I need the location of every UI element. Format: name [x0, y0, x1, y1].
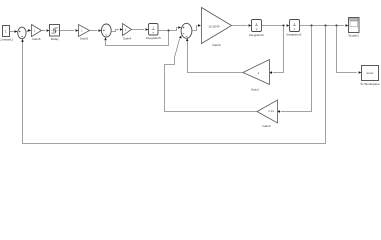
wire Gain3 to Integrator2 [232, 24, 252, 27]
wire Constant1 to Sum1 [10, 30, 18, 33]
sum Sum3 [181, 23, 192, 38]
sum Sum4 [101, 24, 111, 37]
block To Workspace [360, 66, 380, 86]
block Constant1 [0, 26, 13, 42]
svg-text:simout: simout [367, 72, 374, 75]
junction to To Workspace [336, 25, 338, 27]
junction to Gain1 input [283, 25, 285, 27]
svg-text:2.14: 2.14 [268, 109, 274, 113]
wire branch to Gain1 [269, 26, 284, 74]
wire Sum4 to Gain4 [111, 28, 123, 31]
block Integrator5 [146, 24, 161, 41]
gain Gain1 [243, 60, 270, 92]
svg-text:Integrator5: Integrator5 [146, 36, 161, 40]
svg-text:Constant1: Constant1 [0, 37, 13, 41]
svg-text:Gain1: Gain1 [251, 88, 260, 92]
junction at Integrator5 output [168, 30, 170, 32]
wire branch to To Workspace [337, 26, 362, 74]
block Scope1 [348, 18, 359, 38]
wire Integrator1 to Scope1 [300, 24, 349, 27]
junction to outer feedback [325, 25, 327, 27]
wire Integrator2 to Integrator1 [262, 24, 290, 27]
wire Relay to Gain5 [60, 29, 79, 32]
svg-text:Gain4: Gain4 [123, 36, 132, 40]
wire Gain1 to Sum3 bottom [186, 38, 243, 72]
block Integrator1 [287, 20, 302, 37]
wire Integrator5 to Sum3 [158, 26, 181, 30]
svg-text:1: 1 [5, 29, 7, 33]
wire branch to Gain2 [277, 26, 312, 113]
block Integrator2 [249, 20, 264, 37]
gain Gain5 [79, 25, 90, 41]
block Relay [50, 25, 60, 41]
gain Gain2 [257, 100, 278, 128]
wire Sum1 to Gain6 [26, 29, 31, 32]
gain Gain4 [123, 24, 132, 41]
wire Gain5 to Sum4 [90, 29, 102, 32]
svg-text:Gain5: Gain5 [80, 36, 89, 40]
wire rate feedback to Sum4 bottom [104, 31, 168, 46]
svg-text:Integrator1: Integrator1 [287, 33, 302, 37]
wire Sum3 to Gain3 [192, 24, 201, 30]
sum Sum1 [18, 27, 26, 39]
junction to Gain2 input [311, 25, 313, 27]
wire outer feedback to Sum1 bottom [21, 26, 325, 144]
wire Gain2 to Sum3 lower-left [165, 35, 258, 111]
svg-text:Relay: Relay [51, 37, 59, 41]
gain Gain3 [202, 8, 232, 48]
svg-text:10.3049: 10.3049 [208, 24, 219, 28]
gain Gain6 [32, 25, 42, 41]
svg-text:Gain6: Gain6 [32, 37, 41, 41]
svg-text:Gain2: Gain2 [262, 124, 271, 128]
svg-text:To Workspace: To Workspace [360, 82, 380, 86]
svg-text:Scope1: Scope1 [348, 33, 359, 37]
wire Gain6 to Relay [42, 29, 50, 32]
svg-text:Integrator2: Integrator2 [249, 33, 264, 37]
svg-text:Gain3: Gain3 [212, 43, 221, 47]
wire Gain4 to Integrator5 [132, 28, 149, 31]
